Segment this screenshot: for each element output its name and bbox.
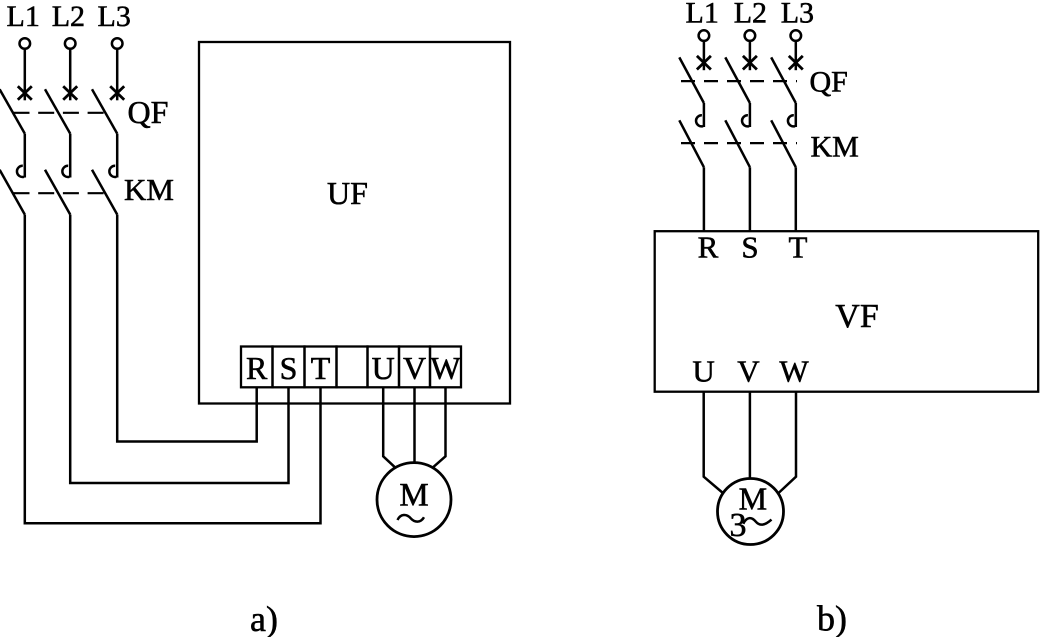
motor M circle (b) bbox=[718, 479, 784, 545]
wire QF pole 3 to KM pole 3 (b) bbox=[795, 103, 798, 127]
svg-text:W: W bbox=[430, 350, 461, 386]
breaker QF pole 3 blade (b) bbox=[771, 57, 796, 103]
svg-text:M: M bbox=[399, 478, 428, 514]
wire L1 terminal to QF pole 1 bbox=[24, 49, 27, 100]
svg-text:R: R bbox=[246, 350, 268, 386]
breaker QF pole 1 X-mark (b) bbox=[697, 56, 711, 70]
terminal cell S (UF) bbox=[273, 347, 305, 388]
contactor KM pole 3 contact arc bbox=[109, 166, 116, 177]
supply terminal L2 circle (b) bbox=[745, 30, 756, 41]
wire QF pole 2 to KM pole 2 bbox=[69, 134, 72, 178]
svg-text:W: W bbox=[779, 353, 809, 388]
svg-text:L3: L3 bbox=[781, 0, 814, 29]
supply terminal L3 circle (b) bbox=[791, 30, 802, 41]
contactor KM linkage (dashed) bbox=[14, 192, 111, 194]
breaker QF pole 3 blade bbox=[92, 89, 117, 133]
wire VF output W to motor (b) bbox=[778, 392, 796, 494]
frequency converter VF box bbox=[655, 231, 1038, 392]
supply terminal L2 circle (a) bbox=[65, 38, 76, 49]
svg-text:QF: QF bbox=[128, 94, 169, 130]
svg-text:L1: L1 bbox=[686, 0, 719, 29]
wire L3 terminal to QF pole 3 bbox=[116, 49, 119, 100]
wire QF pole 1 to KM pole 1 (b) bbox=[703, 103, 706, 127]
breaker QF pole 3 X-mark (b) bbox=[789, 56, 803, 70]
breaker QF pole 2 X-mark bbox=[63, 86, 77, 100]
contactor KM pole 2 blade bbox=[45, 170, 70, 215]
contactor KM pole 3 blade (b) bbox=[771, 120, 796, 167]
svg-text:L2: L2 bbox=[734, 0, 767, 29]
svg-text:QF: QF bbox=[810, 66, 848, 99]
wire VF output V to motor (b) bbox=[749, 392, 752, 478]
breaker QF pole 2 X-mark (b) bbox=[743, 56, 757, 70]
supply terminal L3 circle (a) bbox=[112, 38, 123, 49]
wire L2 terminal to QF pole 2 bbox=[69, 49, 72, 100]
svg-text:U: U bbox=[692, 353, 714, 388]
wire QF pole 3 to KM pole 3 bbox=[116, 134, 119, 178]
supply terminal L1 circle (b) bbox=[699, 30, 710, 41]
wire KM pole 2 to terminal S bbox=[70, 215, 288, 484]
wire KM pole 1 to terminal T bbox=[25, 215, 321, 524]
breaker QF pole 3 X-mark bbox=[110, 86, 124, 100]
terminal cell T (UF) bbox=[305, 347, 337, 388]
contactor KM linkage dashed (b) bbox=[681, 142, 797, 144]
contactor KM pole 2 contact arc (b) bbox=[742, 115, 749, 126]
wire QF pole 1 to KM pole 1 bbox=[24, 134, 27, 178]
motor AC wave symbol (b) bbox=[743, 518, 771, 525]
supply terminal L1 circle (a) bbox=[20, 38, 31, 49]
terminal cell spare (UF) bbox=[337, 347, 368, 388]
breaker QF pole 2 blade bbox=[45, 89, 70, 133]
svg-text:3: 3 bbox=[730, 507, 747, 544]
breaker QF pole 1 X-mark bbox=[18, 86, 32, 100]
terminal cell W (UF) bbox=[430, 347, 461, 388]
motor M circle (a) bbox=[377, 463, 451, 537]
svg-text:L1: L1 bbox=[7, 0, 40, 33]
contactor KM pole 1 blade (b) bbox=[679, 120, 704, 167]
contactor KM pole 3 contact arc (b) bbox=[788, 115, 795, 126]
svg-text:UF: UF bbox=[327, 175, 368, 211]
breaker QF pole 1 blade (b) bbox=[679, 57, 704, 103]
contactor KM pole 2 blade (b) bbox=[725, 120, 750, 167]
wire KM pole 3 to terminal R bbox=[117, 215, 257, 442]
contactor KM pole 1 contact arc (b) bbox=[696, 115, 703, 126]
svg-text:KM: KM bbox=[811, 130, 859, 163]
svg-text:KM: KM bbox=[124, 172, 174, 207]
wire terminal V to motor (a) bbox=[413, 387, 416, 462]
svg-text:R: R bbox=[698, 230, 719, 265]
svg-text:S: S bbox=[741, 230, 758, 265]
contactor KM pole 3 blade bbox=[92, 170, 117, 215]
svg-text:T: T bbox=[311, 350, 331, 386]
wire terminal W to motor (a) bbox=[433, 387, 446, 467]
svg-text:a): a) bbox=[250, 599, 278, 637]
wire KM pole 3 to VF input T bbox=[795, 167, 798, 231]
motor AC wave symbol (a) bbox=[398, 515, 425, 522]
svg-text:T: T bbox=[789, 230, 808, 265]
terminal cell R (UF) bbox=[241, 347, 273, 388]
contactor KM pole 2 contact arc bbox=[62, 166, 69, 177]
svg-text:L2: L2 bbox=[52, 0, 85, 33]
svg-text:b): b) bbox=[817, 599, 847, 637]
breaker QF linkage (dashed) bbox=[14, 112, 111, 114]
frequency converter UF box bbox=[199, 42, 510, 404]
svg-text:V: V bbox=[737, 353, 760, 388]
svg-text:L3: L3 bbox=[98, 0, 131, 33]
svg-text:VF: VF bbox=[835, 298, 878, 335]
breaker QF pole 1 blade bbox=[0, 89, 25, 133]
wire terminal U to motor (a) bbox=[383, 387, 395, 467]
contactor KM pole 1 contact arc bbox=[17, 166, 24, 177]
contactor KM pole 1 blade bbox=[0, 170, 25, 215]
terminal cell V (UF) bbox=[399, 347, 430, 388]
wire L1 terminal to QF pole 1 (b) bbox=[703, 41, 706, 70]
wire QF pole 2 to KM pole 2 (b) bbox=[749, 103, 752, 127]
svg-text:S: S bbox=[280, 350, 298, 386]
breaker QF pole 2 blade (b) bbox=[725, 57, 750, 103]
terminal cell U (UF) bbox=[368, 347, 400, 388]
wire L3 terminal to QF pole 3 (b) bbox=[795, 41, 798, 70]
svg-text:U: U bbox=[372, 350, 395, 386]
wire KM pole 1 to VF input R bbox=[703, 167, 706, 231]
svg-text:V: V bbox=[403, 350, 426, 386]
wire L2 terminal to QF pole 2 (b) bbox=[749, 41, 752, 70]
wire VF output U to motor (b) bbox=[704, 392, 724, 494]
breaker QF linkage dashed (b) bbox=[681, 80, 797, 82]
wire KM pole 2 to VF input S bbox=[749, 167, 752, 231]
